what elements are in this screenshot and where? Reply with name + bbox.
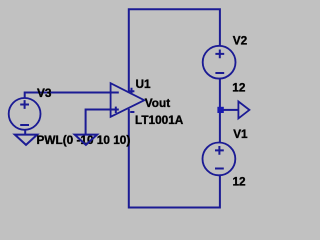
V1 minus mark [215, 168, 224, 170]
wire junction to output port [224, 109, 239, 111]
junction dot [217, 107, 223, 113]
voltage source V1 circle [203, 143, 236, 176]
wire V1 bottom, bottom rail, up to op-amp V- pin [129, 109, 220, 208]
svg-text:LT1001A: LT1001A [135, 113, 184, 127]
V2 plus mark [215, 50, 224, 59]
svg-text:U1: U1 [136, 77, 152, 91]
svg-text:V3: V3 [37, 86, 52, 100]
svg-text:Vout: Vout [145, 96, 170, 110]
wire positive supply rail: op-amp V+ pin up, across top, down to V2 top [129, 9, 220, 93]
V1 plus mark [215, 146, 224, 155]
V3 bottom stub to ground [24, 130, 26, 135]
svg-text:12: 12 [233, 175, 247, 189]
ground under V3 [15, 135, 37, 145]
op-amp U1 triangle body [111, 83, 145, 117]
svg-text:V2: V2 [233, 34, 248, 48]
op-amp V+ supply plus mark [129, 88, 135, 95]
wire V2 bottom to V1 top (through junction) [219, 79, 221, 143]
op-amp non-inverting input + mark (vertical bar) [115, 107, 117, 113]
ground under non-inverting input (drawn over text) [75, 135, 97, 145]
V3 plus mark [20, 100, 29, 109]
voltage source V2 circle [203, 46, 236, 79]
svg-text:12: 12 [232, 81, 246, 95]
circuit schematic canvas [0, 0, 259, 215]
wire op-amp non-inverting input to ground branch [86, 110, 119, 135]
V3 minus mark [20, 124, 29, 126]
svg-text:V1: V1 [233, 127, 248, 141]
V2 minus mark [215, 72, 224, 74]
voltage source V3 circle [9, 98, 41, 130]
output port arrow at V2/V1 junction [238, 102, 249, 119]
op-amp V- supply minus mark [130, 111, 134, 113]
wire V3 top to op-amp inverting input [25, 93, 119, 99]
